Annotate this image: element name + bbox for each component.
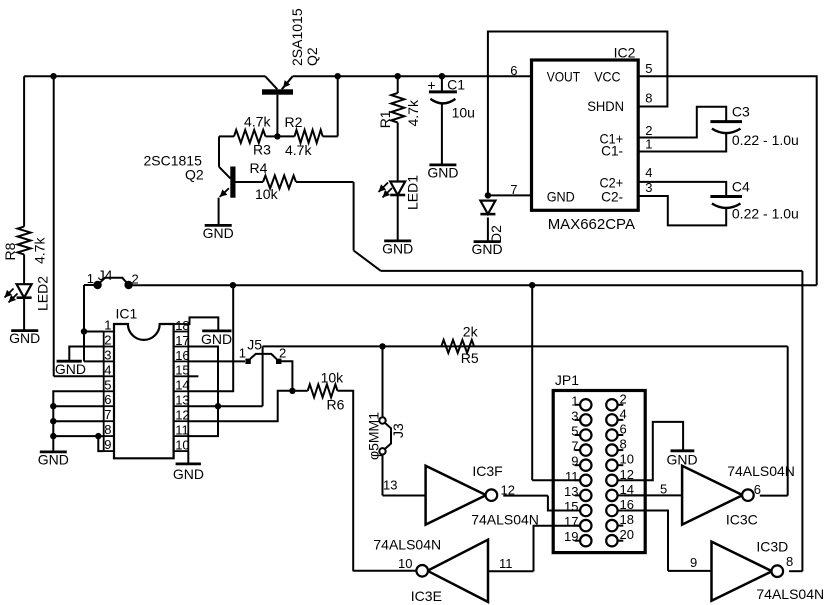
svg-text:10k: 10k — [321, 370, 345, 386]
svg-text:4.7k: 4.7k — [32, 237, 48, 264]
svg-text:9: 9 — [690, 555, 697, 570]
svg-text:7: 7 — [104, 407, 111, 422]
svg-text:1: 1 — [645, 137, 652, 152]
svg-text:10: 10 — [398, 556, 412, 571]
svg-text:Q2: Q2 — [185, 166, 204, 182]
svg-text:R4: R4 — [250, 160, 268, 176]
svg-text:1: 1 — [571, 393, 578, 408]
svg-text:0.22 - 1.0u: 0.22 - 1.0u — [732, 206, 799, 222]
svg-text:10u: 10u — [452, 104, 475, 120]
svg-text:+: + — [427, 77, 435, 93]
svg-text:4.7k: 4.7k — [285, 142, 312, 158]
svg-text:4: 4 — [645, 165, 652, 180]
svg-text:5: 5 — [660, 482, 667, 497]
svg-text:R5: R5 — [461, 350, 479, 366]
svg-text:R1: R1 — [377, 110, 393, 128]
svg-text:3: 3 — [104, 347, 111, 362]
svg-text:2: 2 — [104, 333, 111, 348]
svg-text:5: 5 — [104, 377, 111, 392]
svg-text:19: 19 — [564, 529, 578, 544]
svg-text:13: 13 — [564, 484, 578, 499]
svg-text:JP1: JP1 — [555, 372, 579, 388]
svg-text:11: 11 — [175, 423, 189, 438]
svg-text:VCC: VCC — [594, 69, 620, 85]
svg-text:74ALS04N: 74ALS04N — [756, 586, 824, 602]
svg-text:74ALS04N: 74ALS04N — [373, 536, 441, 552]
svg-text:11: 11 — [565, 469, 579, 484]
svg-text:8: 8 — [786, 554, 793, 569]
svg-text:10: 10 — [175, 438, 189, 453]
svg-text:GND: GND — [201, 331, 232, 347]
svg-text:C1-: C1- — [601, 142, 623, 158]
svg-text:3: 3 — [571, 408, 578, 423]
svg-text:2SA1015: 2SA1015 — [289, 8, 305, 66]
svg-text:5: 5 — [571, 424, 578, 439]
svg-text:12: 12 — [175, 408, 189, 423]
svg-text:15: 15 — [175, 363, 189, 378]
svg-text:18: 18 — [620, 512, 634, 527]
svg-text:1: 1 — [104, 318, 111, 333]
svg-text:2: 2 — [620, 391, 627, 406]
svg-text:6: 6 — [754, 482, 761, 497]
svg-text:GND: GND — [203, 225, 234, 241]
svg-text:GND: GND — [382, 240, 413, 256]
svg-text:SHDN: SHDN — [587, 98, 624, 114]
svg-text:4.7k: 4.7k — [405, 99, 421, 126]
svg-text:LED2: LED2 — [35, 276, 51, 311]
svg-text:IC3E: IC3E — [411, 588, 442, 604]
svg-text:MAX662CPA: MAX662CPA — [548, 216, 635, 233]
svg-text:1: 1 — [239, 346, 246, 361]
svg-text:J5: J5 — [247, 337, 262, 353]
svg-text:R6: R6 — [327, 397, 345, 413]
svg-text:GND: GND — [55, 361, 86, 377]
svg-text:14: 14 — [175, 378, 189, 393]
svg-text:C4: C4 — [732, 178, 750, 194]
svg-text:C2-: C2- — [601, 189, 623, 205]
svg-text:13: 13 — [175, 393, 189, 408]
svg-text:J3: J3 — [390, 423, 406, 438]
svg-text:74ALS04N: 74ALS04N — [471, 512, 539, 528]
svg-text:GND: GND — [173, 466, 204, 482]
svg-text:GND: GND — [38, 451, 69, 467]
svg-text:12: 12 — [501, 483, 515, 498]
svg-text:GND: GND — [9, 330, 40, 346]
svg-text:13: 13 — [383, 478, 397, 493]
svg-text:GND: GND — [667, 451, 698, 467]
svg-text:74ALS04N: 74ALS04N — [727, 463, 795, 479]
svg-text:4: 4 — [104, 362, 111, 377]
svg-text:LED1: LED1 — [405, 175, 421, 210]
svg-text:VOUT: VOUT — [547, 69, 581, 85]
svg-text:18: 18 — [175, 318, 189, 333]
svg-text:6: 6 — [620, 422, 627, 437]
svg-text:7: 7 — [571, 439, 578, 454]
svg-text:2: 2 — [279, 346, 286, 361]
svg-text:20: 20 — [620, 527, 634, 542]
svg-text:6: 6 — [104, 392, 111, 407]
svg-text:R2: R2 — [285, 114, 303, 130]
svg-text:R8: R8 — [2, 242, 18, 260]
svg-text:IC3C: IC3C — [726, 512, 758, 528]
svg-text:IC1: IC1 — [116, 306, 138, 322]
svg-text:4: 4 — [620, 406, 627, 421]
svg-text:8: 8 — [645, 90, 652, 105]
svg-text:J4: J4 — [98, 267, 113, 283]
svg-text:GND: GND — [427, 164, 458, 180]
svg-text:10k: 10k — [255, 186, 279, 202]
svg-text:IC3F: IC3F — [472, 463, 502, 479]
svg-text:9: 9 — [104, 437, 111, 452]
svg-text:9: 9 — [571, 454, 578, 469]
svg-text:8: 8 — [104, 422, 111, 437]
svg-text:φ5MM1: φ5MM1 — [366, 412, 382, 460]
svg-text:C1: C1 — [447, 77, 465, 93]
svg-text:2: 2 — [645, 123, 652, 138]
svg-text:15: 15 — [564, 499, 578, 514]
svg-text:IC3D: IC3D — [756, 538, 788, 554]
svg-text:4.7k: 4.7k — [244, 114, 271, 130]
svg-text:0.22 - 1.0u: 0.22 - 1.0u — [732, 132, 799, 148]
svg-text:16: 16 — [175, 348, 189, 363]
svg-text:17: 17 — [175, 333, 189, 348]
svg-text:D2: D2 — [488, 225, 504, 243]
svg-text:11: 11 — [499, 556, 513, 571]
svg-text:Q2: Q2 — [304, 47, 320, 66]
svg-text:1: 1 — [87, 271, 94, 286]
svg-text:17: 17 — [564, 514, 578, 529]
svg-text:GND: GND — [547, 189, 575, 205]
svg-text:2k: 2k — [463, 323, 479, 339]
svg-text:8: 8 — [620, 437, 627, 452]
svg-text:5: 5 — [645, 61, 652, 76]
svg-text:R3: R3 — [253, 142, 271, 158]
svg-text:C3: C3 — [732, 103, 750, 119]
svg-text:6: 6 — [510, 63, 517, 78]
svg-text:IC2: IC2 — [614, 45, 636, 61]
svg-text:10: 10 — [620, 452, 634, 467]
